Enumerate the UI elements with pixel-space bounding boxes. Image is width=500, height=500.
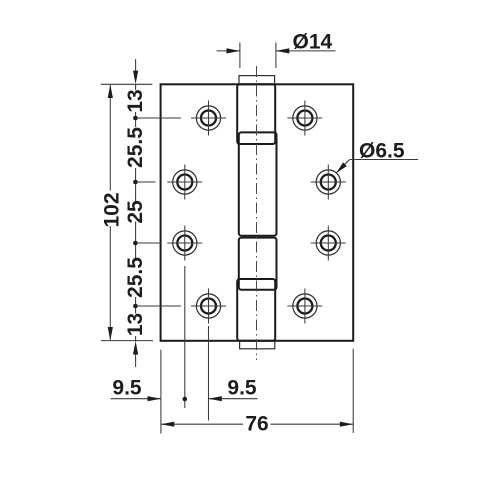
chain dimension line x=135.6 — [135, 84, 137, 90]
hinge plate outline — [161, 84, 354, 341]
dim Ø14 extension lines — [239, 43, 241, 69]
row 2 center line — [136, 181, 156, 183]
row 4 center line — [136, 305, 181, 307]
hole R2 — [311, 165, 346, 200]
leader Ø6.5 — [350, 159, 418, 161]
knuckle K1 — [237, 84, 275, 144]
hole R3 — [311, 226, 346, 261]
knuckle K4 — [237, 279, 275, 341]
knuckle K3 — [239, 238, 277, 290]
svg-text:Ø14: Ø14 — [293, 31, 333, 54]
barrel top cap — [239, 76, 275, 85]
dim Ø14 line left — [217, 50, 240, 52]
row 1 center line — [136, 117, 181, 119]
svg-text:9.5: 9.5 — [227, 377, 257, 400]
column line outer (x=208.5) below plate — [208, 326, 210, 421]
dim 102 extension line bottom — [101, 340, 153, 342]
svg-text:13: 13 — [124, 89, 147, 112]
dim 102 extension line top — [101, 83, 153, 85]
column line inner (x=184.8) below plate — [184, 266, 186, 408]
extension line left edge below plate — [160, 350, 162, 434]
hole L4 — [191, 289, 226, 324]
dim 102 line — [109, 85, 111, 190]
barrel bottom cap — [240, 341, 275, 349]
hole L2 — [167, 165, 202, 200]
hole R1 — [287, 101, 322, 136]
dim 9.5 right line — [208, 398, 257, 400]
svg-text:Ø6.5: Ø6.5 — [359, 139, 405, 162]
svg-text:9.5: 9.5 — [112, 377, 142, 400]
svg-text:25.5: 25.5 — [124, 127, 147, 168]
hole L3 — [167, 226, 202, 261]
svg-text:76: 76 — [245, 413, 268, 436]
chain bottom arrow — [133, 341, 138, 355]
svg-text:25.5: 25.5 — [124, 257, 147, 298]
hole R4 — [287, 289, 322, 324]
hole L1 — [191, 101, 226, 136]
dim 76 line — [161, 423, 243, 425]
barrel center line — [256, 66, 258, 360]
chain top arrow — [135, 59, 137, 71]
knuckle K2 — [239, 132, 277, 235]
extension line right edge below plate — [352, 349, 354, 433]
row 3 center line — [136, 242, 160, 244]
dim Ø14 line right — [276, 50, 336, 52]
chain dots — [133, 116, 138, 121]
dim 9.5 left line — [111, 398, 161, 400]
svg-text:102: 102 — [101, 192, 124, 227]
svg-text:25: 25 — [124, 200, 147, 224]
svg-text:13: 13 — [124, 313, 147, 336]
dim 9.5 dot — [183, 397, 188, 402]
